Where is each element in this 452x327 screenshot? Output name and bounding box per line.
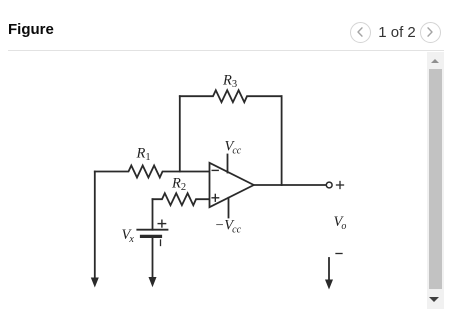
power +Vcc — [227, 155, 229, 173]
wire — [94, 172, 96, 279]
svg-text:Vo: Vo — [334, 214, 347, 232]
header separator — [8, 50, 444, 51]
ground — [91, 278, 99, 288]
terminal + — [326, 182, 343, 189]
scrollbar track — [427, 52, 444, 309]
wire — [152, 199, 154, 230]
power -Vcc — [228, 198, 230, 218]
scrollbar up arrow — [431, 59, 439, 63]
page indicator — [376, 25, 418, 41]
prev page button — [350, 22, 371, 43]
wire — [281, 96, 283, 185]
wire — [152, 237, 154, 279]
svg-text:R3: R3 — [222, 73, 237, 91]
scrollbar down arrow — [429, 297, 439, 302]
next page button — [420, 22, 441, 43]
svg-text:−Vcc: −Vcc — [215, 218, 242, 236]
battery Vx — [137, 220, 167, 245]
header title — [8, 21, 54, 38]
ground — [149, 277, 157, 287]
svg-text:Vcc: Vcc — [225, 139, 242, 157]
current arrow — [325, 258, 333, 290]
svg-text:R2: R2 — [171, 176, 186, 194]
scrollbar thumb — [429, 69, 442, 289]
resistor R1 — [95, 166, 210, 178]
svg-text:R1: R1 — [136, 145, 151, 163]
resistor R2 — [153, 193, 210, 205]
op-amp U1 — [210, 163, 254, 207]
label - — [336, 253, 342, 255]
wire — [179, 96, 181, 171]
svg-text:Vx: Vx — [122, 227, 135, 245]
resistor R3 — [180, 90, 282, 102]
wire — [254, 184, 326, 186]
